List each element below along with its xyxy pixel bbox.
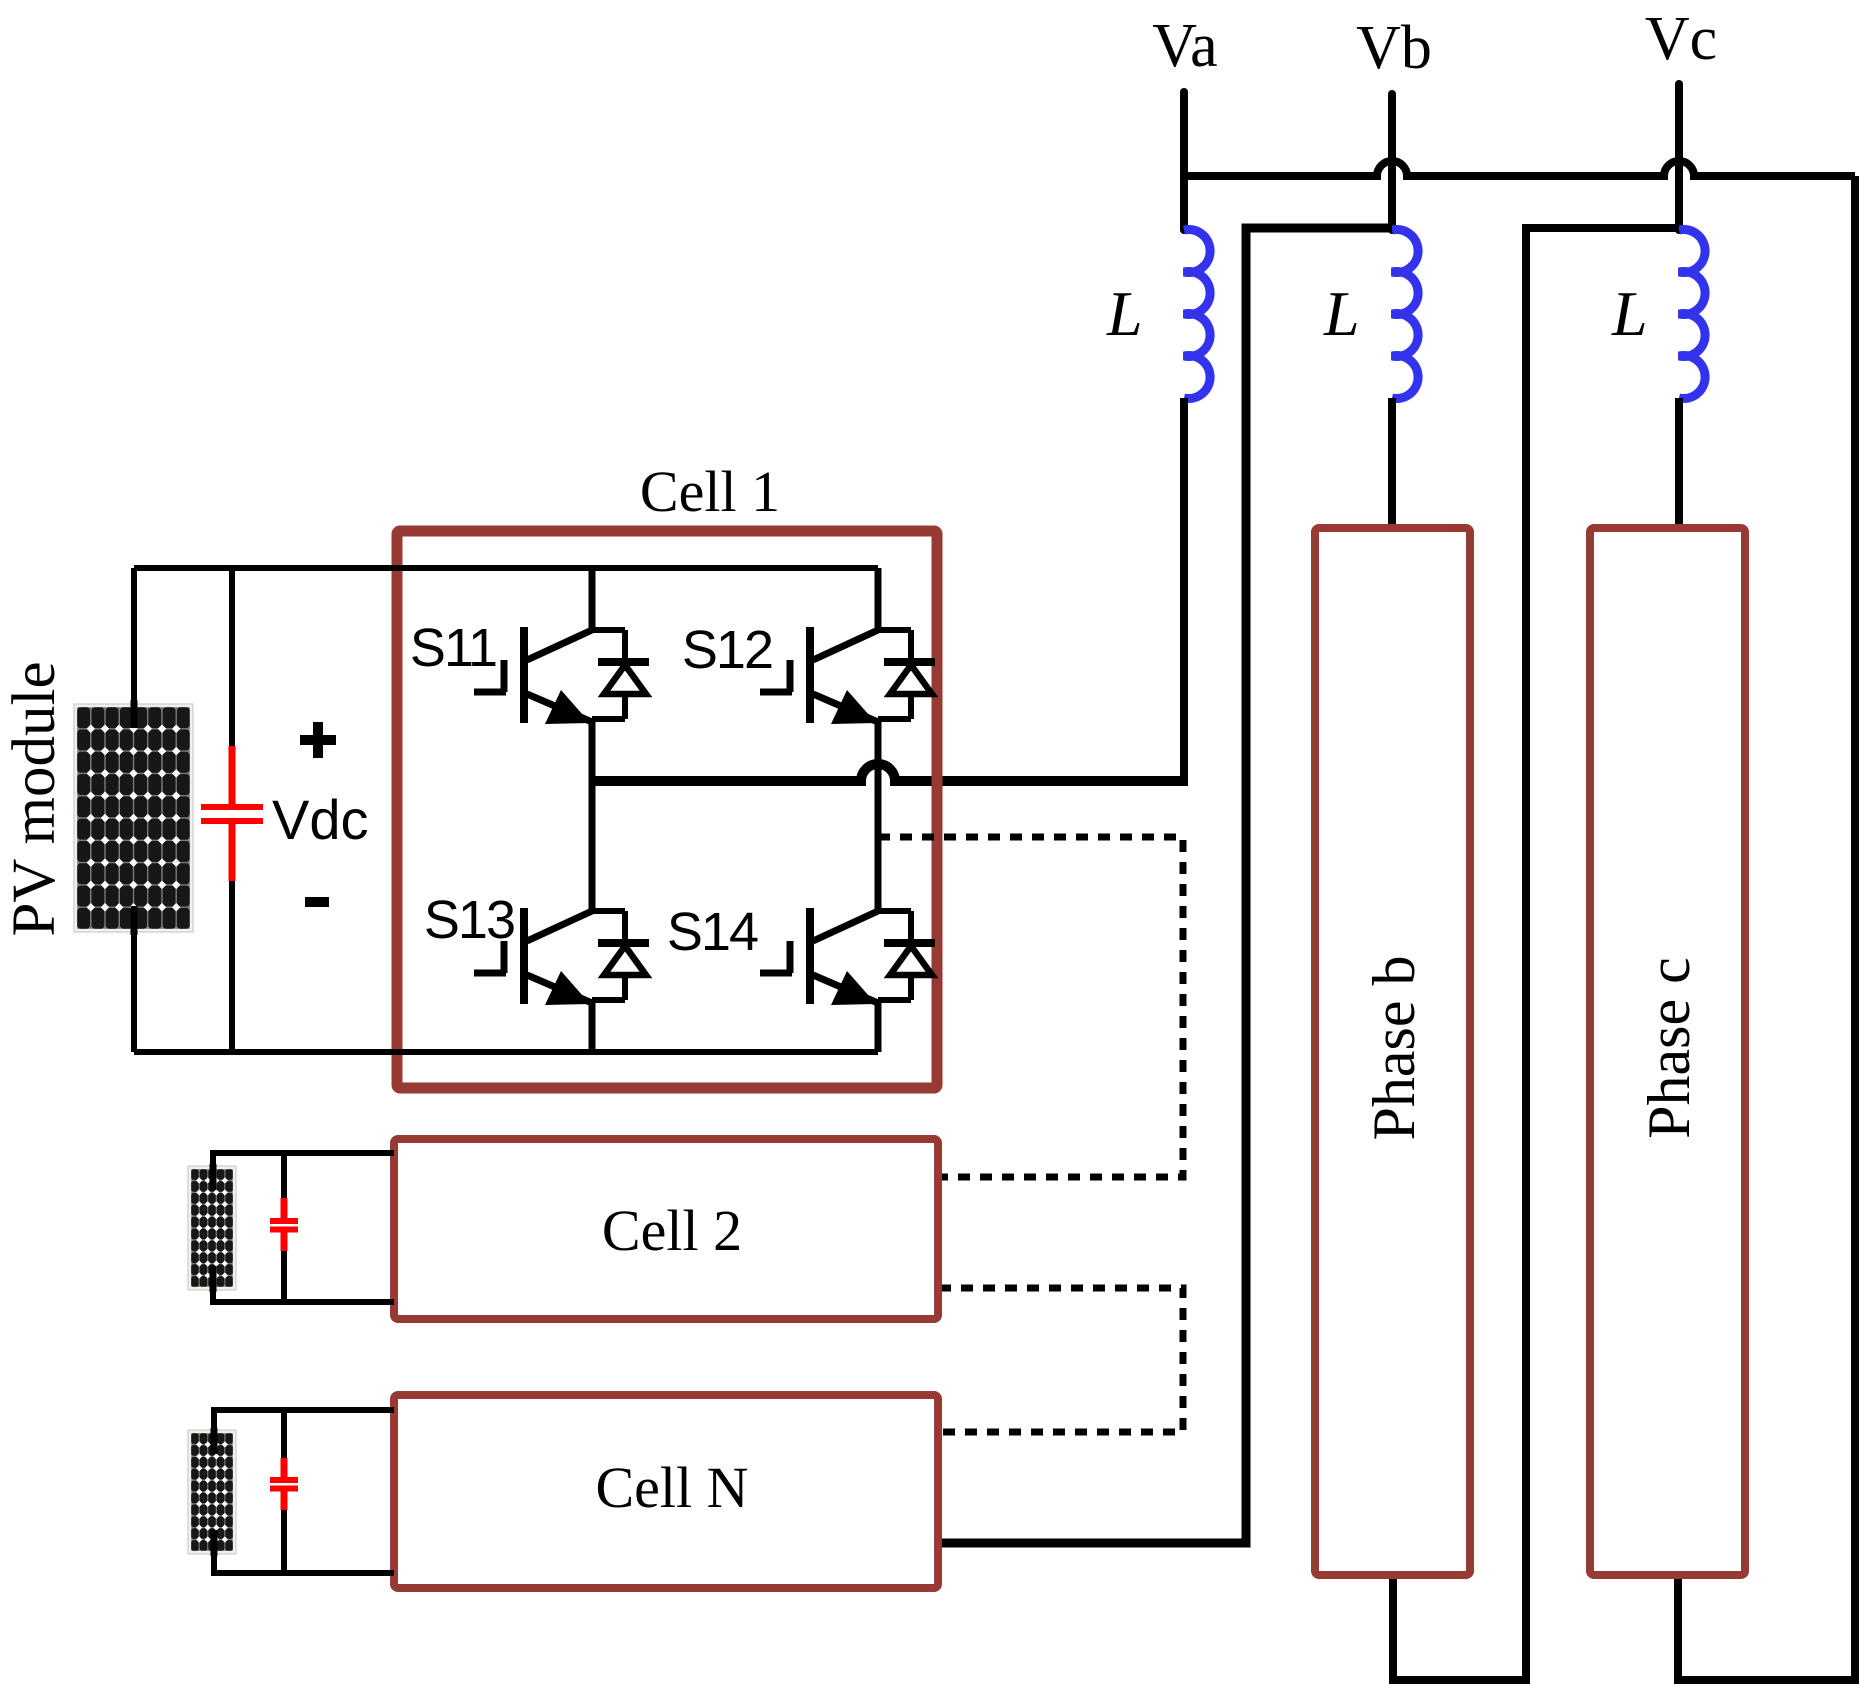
wire Cell 2 capacitor branch upper: [281, 1153, 287, 1198]
svg-text:Vb: Vb: [1356, 14, 1432, 82]
box Cell 1: [397, 531, 937, 1088]
capacitor Vdc upper red lead: [229, 746, 236, 804]
wire Cell 2 capacitor branch lower: [281, 1251, 287, 1302]
wire phase a return: Cell N output up to Vb junction: [939, 228, 1392, 1543]
svg-text:L: L: [1106, 278, 1143, 349]
svg-text:Cell 2: Cell 2: [602, 1198, 742, 1263]
wire Cell N capacitor branch lower: [281, 1510, 287, 1573]
label - polarity: [305, 897, 329, 907]
PV module panel 2: [188, 1166, 236, 1290]
transistor S13: [474, 908, 649, 1005]
capacitor Vdc top plate: [201, 804, 263, 810]
PV module panel N: [188, 1430, 236, 1554]
box Phase b: [1315, 528, 1470, 1575]
wire DC bus bottom rail: [134, 1049, 878, 1055]
svg-text:Vdc: Vdc: [272, 788, 369, 851]
label + polarity: [300, 722, 336, 758]
wire dashed gate-signal link Cell1 to Cell2: [878, 837, 1183, 1177]
wire Va terminal drop: [1180, 92, 1188, 230]
wire Vc stub into Phase c box: [1675, 398, 1683, 532]
inductor L phase a: [1184, 230, 1210, 399]
transistor S11: [474, 627, 649, 724]
capacitor Vdc bottom plate: [201, 818, 263, 824]
inductor L phase c: [1679, 230, 1705, 399]
wire H-bridge left leg: [589, 568, 596, 1052]
svg-text:S14: S14: [667, 902, 758, 962]
svg-text:Phase c: Phase c: [1636, 957, 1702, 1139]
transistor S14: [760, 908, 935, 1005]
wire Vb stub into Phase b box: [1388, 398, 1396, 532]
wire H-bridge right leg: [875, 568, 882, 1052]
svg-text:Cell 1: Cell 1: [640, 459, 780, 524]
box Cell N: [394, 1395, 938, 1588]
svg-text:L: L: [1611, 278, 1648, 349]
wire phase b bottom return up to Vc junction: [1393, 228, 1679, 1680]
wire Cell N capacitor branch upper: [281, 1410, 287, 1458]
wire top bus from Va to right edge with hops over Vb and Vc: [1184, 161, 1855, 176]
svg-text:L: L: [1323, 278, 1360, 349]
wire stub over PV panel N bottom: [211, 1530, 218, 1556]
wire stub over PV panel 1 bottom: [131, 906, 138, 935]
wire capacitor branch lower black lead: [229, 881, 235, 1052]
capacitor CN red: [270, 1458, 298, 1510]
svg-text:PV module: PV module: [1, 661, 68, 936]
wire left outer vertical (PV module branch): [131, 568, 137, 1052]
wire Cell 2 DC loop: [213, 1153, 394, 1302]
wire stub over PV panel 2 top: [210, 1164, 217, 1190]
svg-text:S11: S11: [410, 618, 496, 678]
wire Cell N DC loop: [214, 1410, 394, 1573]
wire Vb terminal drop: [1388, 94, 1396, 230]
wire DC bus top rail: [134, 565, 878, 571]
svg-text:Vc: Vc: [1645, 5, 1717, 73]
svg-text:Va: Va: [1152, 12, 1217, 80]
wire right edge vertical and phase c bottom return: [1678, 176, 1855, 1680]
svg-text:Phase b: Phase b: [1361, 956, 1427, 1141]
svg-text:S13: S13: [424, 890, 514, 950]
svg-text:S12: S12: [682, 620, 772, 680]
wire capacitor branch upper black lead: [229, 568, 235, 746]
wire Vc terminal drop: [1675, 84, 1683, 230]
capacitor Vdc lower red lead: [229, 824, 236, 881]
box Phase c: [1590, 528, 1745, 1575]
PV module panel 1: [74, 704, 193, 932]
wire dashed gate-signal link Cell2 to CellN: [939, 1288, 1183, 1432]
wire stub over PV panel 2 bottom: [210, 1266, 217, 1292]
wire stub over PV panel N top: [211, 1428, 218, 1454]
svg-text:Cell N: Cell N: [595, 1455, 748, 1520]
wire H-bridge output with hop over right leg: [592, 764, 1188, 781]
wire stub over PV panel 1 top: [131, 700, 138, 728]
box Cell 2: [394, 1139, 938, 1319]
inductor L phase b: [1392, 230, 1418, 399]
transistor S12: [760, 627, 935, 724]
capacitor C2 red: [270, 1198, 298, 1251]
wire phase a line from inductor to H-bridge output: [1180, 398, 1188, 781]
